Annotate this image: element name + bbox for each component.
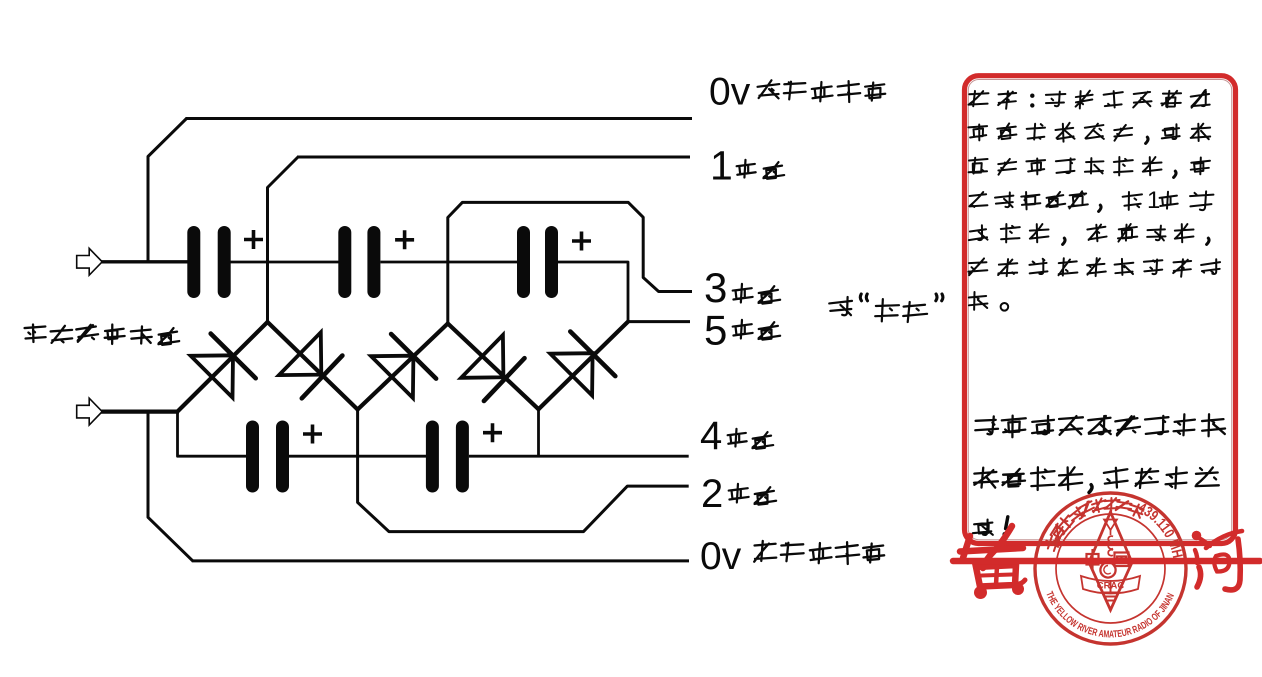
- diode D1 (node N0 to node N1): [178, 322, 268, 412]
- wire: 0v even-multiples output rail: [192, 559, 689, 562]
- red calligraphy 黄 (Yellow): [960, 526, 1025, 599]
- label: 来自音频电压 (from audio voltage): [24, 324, 179, 345]
- wire: 1x output rail (1倍压): [297, 156, 690, 159]
- note text paragraph 1 (注意：本装置是专为胆耳放设计的…): [968, 90, 1221, 311]
- wire: C3 right plate to node N5: [558, 262, 628, 322]
- svg-text:5: 5: [704, 307, 727, 354]
- label: 接“猫眼” (connect to magic-eye tube): [829, 294, 943, 322]
- red calligraphy long connecting stroke: [953, 558, 1260, 564]
- svg-text:0v: 0v: [709, 71, 751, 114]
- capacitor C5: [426, 421, 469, 493]
- polarity + of C1: [244, 230, 263, 249]
- wire: over-route from node N3 to 3x output (3倍压): [448, 202, 692, 323]
- wire: lower input to diode chain node N0: [101, 410, 179, 414]
- wire: C2 right plate to C3 left plate (through node N3): [381, 261, 519, 264]
- note text 错！: [972, 517, 1007, 537]
- capacitor C4: [246, 421, 289, 493]
- polarity + of C3: [572, 232, 591, 251]
- svg-text:4: 4: [700, 414, 722, 458]
- polarity + of C5: [483, 423, 502, 442]
- input arrow A1 (audio source, upper): [77, 248, 103, 275]
- label: 0v even-multiples negative pole (0v偶数倍负极): [700, 535, 884, 578]
- red note box frame: [965, 76, 1236, 544]
- wire: 5x output rail (5倍压): [627, 320, 690, 323]
- wire: riser from lower input node to 0v even rail: [148, 412, 193, 561]
- diode D2 (node N1 to node N2): [268, 322, 358, 410]
- wire: C5 right plate to 4x output rail (4倍压): [469, 455, 689, 458]
- input arrow A2 (audio source, lower): [77, 398, 103, 425]
- red seal stamp (济南黄河业余无线电 439.110 MHz / CRAC emblem): [1035, 493, 1186, 644]
- wire: C1 right plate to C2 left plate (through node N1): [230, 261, 339, 264]
- capacitor C2: [338, 226, 380, 298]
- capacitor C3: [517, 226, 558, 298]
- svg-text:3: 3: [704, 264, 727, 311]
- wire: riser from upper input node to 0v odd rail: [148, 119, 187, 264]
- svg-text:2: 2: [701, 472, 723, 516]
- red calligraphy 河 (River): [1192, 531, 1242, 590]
- label: 5x output (5倍压): [704, 307, 780, 354]
- wire: C4 right plate to C5 left plate (through node N2 drop): [289, 455, 427, 458]
- wire: upper input to C1 left plate: [101, 260, 188, 263]
- note text paragraph 2 (晶体管类收音机也可参考使用…): [974, 414, 1225, 493]
- svg-text:1: 1: [1147, 187, 1160, 214]
- svg-text:1: 1: [710, 143, 733, 189]
- diode D4 (node N3 to node N4): [448, 324, 539, 410]
- label: 4x output (4倍压): [700, 414, 773, 458]
- label: 3x output (3倍压): [704, 264, 780, 311]
- label: 2x output (2倍压): [701, 472, 776, 516]
- wire: node N4 drop to bottom capacitor row: [537, 408, 540, 458]
- polarity + of C4: [303, 425, 322, 444]
- label: 0v odd-multiples negative pole (0v奇数倍负极): [709, 71, 886, 114]
- polarity + of C2: [395, 230, 414, 249]
- capacitor C1: [187, 226, 230, 298]
- wire: riser node N1 to 1x rail: [268, 157, 299, 323]
- wire: node N2 drop and 2x output route (2倍压): [358, 408, 689, 532]
- wire: node N0 drop to bottom capacitor row: [178, 410, 248, 456]
- diode D3 (node N2 to node N3): [358, 324, 448, 410]
- svg-text:0v: 0v: [700, 535, 742, 578]
- wire: 0v odd-multiples output rail: [186, 117, 693, 120]
- label: 1x output (1倍压): [710, 143, 784, 189]
- diode D5 (node N4 to node N5): [539, 322, 629, 410]
